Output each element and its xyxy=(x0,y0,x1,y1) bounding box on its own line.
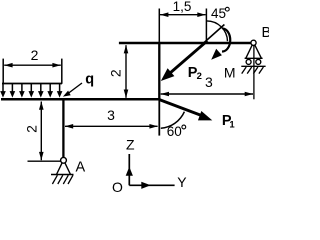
label 45 degrees xyxy=(211,6,229,21)
vertical reference stub below node xyxy=(158,101,160,136)
dimension 2 left-vertical line with arrows xyxy=(39,101,44,160)
label A xyxy=(76,160,86,176)
svg-text:q: q xyxy=(85,72,94,88)
label P1 xyxy=(222,113,236,131)
svg-text:3: 3 xyxy=(107,107,115,123)
pointer arrow from q to load xyxy=(63,83,82,97)
support B hatching xyxy=(242,67,264,74)
svg-text:B: B xyxy=(262,25,270,41)
60 degree angle arc xyxy=(161,112,185,129)
label Y xyxy=(177,174,187,190)
distributed load arrows xyxy=(0,84,62,98)
dimension 3 right line with arrows xyxy=(161,92,254,97)
dimension 2 mid-vertical text (rotated) xyxy=(108,69,124,77)
force P1 arrow xyxy=(159,100,212,121)
svg-text:3: 3 xyxy=(205,74,213,90)
svg-text:Y: Y xyxy=(177,174,187,190)
svg-text:A: A xyxy=(76,160,86,176)
label 60 degrees xyxy=(167,124,186,139)
label O xyxy=(112,179,123,195)
label P2 xyxy=(188,65,202,82)
dimension 2 left-vertical text (rotated) xyxy=(23,125,39,133)
dimension 3 right text xyxy=(205,74,213,90)
dimension 3 right extension tick xyxy=(253,46,255,99)
column member above support A xyxy=(62,98,64,157)
dimension 1,5 right extension tick xyxy=(205,9,207,42)
dimension 1,5 text xyxy=(173,0,192,14)
svg-text:Z: Z xyxy=(126,137,135,153)
dimension 3 lower-left line with arrows xyxy=(65,124,158,129)
label Z xyxy=(126,137,135,153)
label M xyxy=(224,65,236,81)
force P2 line of action xyxy=(203,25,224,44)
dimension 2 mid-vertical line with arrows xyxy=(124,45,129,98)
support A triangle xyxy=(51,163,74,175)
support B rollers xyxy=(246,59,261,64)
dimension 1,5 line with arrows xyxy=(160,12,206,17)
svg-text:2: 2 xyxy=(23,125,39,133)
force P2 arrow xyxy=(161,41,208,81)
svg-text:2: 2 xyxy=(197,71,202,82)
svg-text:O: O xyxy=(112,179,123,192)
dimension 2 top-left text xyxy=(31,47,39,63)
moment M arc arrow xyxy=(211,29,230,60)
dimension 1,5 extension tick above member xyxy=(158,9,160,42)
beam top horizontal member with left extension xyxy=(119,42,251,44)
dimension 2 left-vertical extension line at A level xyxy=(28,160,62,162)
dimension 2 top-left line with arrows xyxy=(4,63,61,68)
45 degree angle arc xyxy=(206,21,227,41)
support A pin circle xyxy=(61,157,67,163)
label B xyxy=(262,25,272,41)
label q xyxy=(85,72,94,88)
vertical member between top beam and node xyxy=(158,42,160,101)
svg-text:1,5: 1,5 xyxy=(173,0,192,14)
svg-text:M: M xyxy=(224,65,236,81)
distributed load q top line xyxy=(2,83,62,85)
axis origin corner xyxy=(129,154,174,185)
svg-text:2: 2 xyxy=(31,47,39,63)
svg-text:60: 60 xyxy=(167,124,182,139)
beam middle horizontal member xyxy=(1,98,160,101)
support B ground line xyxy=(241,65,265,67)
dimension 2 top-left extension ticks xyxy=(3,59,62,84)
axis Z arrowhead xyxy=(126,167,133,176)
axis Y arrowhead xyxy=(141,182,150,189)
support B pin circle xyxy=(251,40,256,45)
support B triangle xyxy=(245,45,263,58)
support A hatching xyxy=(52,175,73,184)
svg-text:45: 45 xyxy=(211,6,226,21)
svg-text:2: 2 xyxy=(108,69,124,77)
dimension 3 lower-left text xyxy=(107,107,115,123)
svg-text:1: 1 xyxy=(229,120,235,131)
